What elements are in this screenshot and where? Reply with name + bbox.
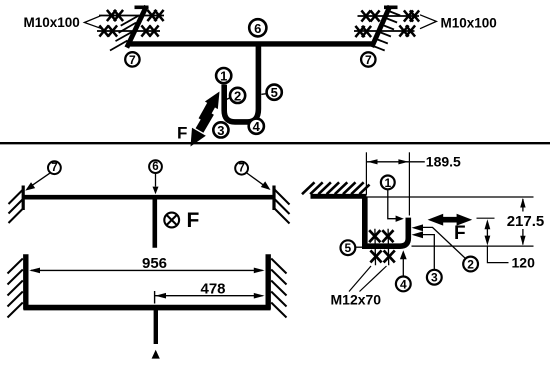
arrowhead up lower — [152, 350, 160, 359]
svg-text:120: 120 — [512, 254, 536, 270]
leader arrow BL-right — [246, 173, 270, 190]
circled 4 BR — [396, 277, 411, 292]
svg-text:478: 478 — [200, 281, 225, 298]
svg-text:3: 3 — [431, 271, 438, 285]
circled 4 top — [249, 119, 264, 135]
wall BL-right — [272, 186, 275, 211]
svg-text:M12x70: M12x70 — [331, 292, 382, 308]
circled 3 BR — [427, 270, 442, 285]
svg-text:M10x100: M10x100 — [24, 15, 80, 30]
hanger pipe U — [224, 46, 258, 122]
svg-text:1: 1 — [384, 176, 391, 190]
leader 3 — [412, 231, 435, 269]
svg-text:1: 1 — [220, 69, 227, 84]
svg-text:2: 2 — [467, 258, 474, 272]
circled 7 top-right — [361, 52, 375, 67]
leader 4 — [400, 250, 407, 275]
leader 2 — [412, 224, 466, 258]
circled 7 BL-left — [48, 161, 61, 174]
force arrow F up-right — [203, 92, 220, 121]
svg-text:4: 4 — [253, 119, 261, 134]
svg-text:6: 6 — [152, 161, 158, 173]
circled 1 BR — [381, 176, 395, 190]
separator line — [0, 142, 550, 144]
circled 5 BR — [341, 240, 363, 255]
center line lower — [154, 308, 158, 344]
ref line stub level — [477, 217, 495, 219]
bolts X left (M10) — [99, 10, 163, 37]
svg-text:6: 6 — [254, 21, 261, 36]
symbol F into page — [164, 213, 179, 228]
wall lower-left hatches — [8, 259, 23, 318]
svg-text:7: 7 — [51, 162, 57, 174]
force arrow F BR — [428, 214, 473, 226]
circled 2 BR — [463, 257, 478, 272]
circled 3 top — [213, 122, 228, 138]
svg-text:M10x100: M10x100 — [441, 15, 497, 30]
dim 478 — [155, 281, 265, 304]
ref line ceiling level — [367, 196, 534, 198]
bar BL — [24, 195, 275, 200]
svg-text:7: 7 — [365, 53, 372, 67]
circled 7 BL-right — [235, 162, 248, 175]
main bar — [127, 41, 375, 46]
wall BL-left hatches — [9, 190, 23, 223]
leader 1 — [388, 190, 404, 222]
svg-text:7: 7 — [129, 53, 136, 67]
dim 120 connector — [487, 245, 508, 262]
wall lower-right hatches — [271, 259, 286, 318]
tick to circled 5 — [261, 93, 265, 96]
right support diagonal — [372, 6, 398, 47]
leader arrow 6 BL — [153, 174, 159, 195]
circled 2 top — [230, 88, 245, 104]
dim 189.5 extension right — [408, 152, 410, 215]
dim 189.5 extension left — [365, 152, 367, 195]
left support diagonal — [127, 6, 149, 48]
svg-text:956: 956 — [142, 255, 167, 272]
J pipe — [365, 197, 409, 247]
wall lower-left — [23, 254, 28, 309]
circled 7 top-left — [125, 52, 139, 67]
wall BL-right hatches — [275, 190, 290, 224]
tick to circled 2 — [226, 98, 230, 100]
bolt centerlines (M12) — [375, 229, 389, 265]
right support hatching — [371, 10, 401, 51]
ceiling — [311, 194, 367, 199]
bolts X right (M10) — [355, 10, 419, 37]
hanger line BL — [153, 199, 158, 248]
ref line bar level — [412, 245, 534, 247]
leaders M12x70 — [349, 266, 387, 292]
bolts X (M12) — [369, 230, 395, 262]
circled 6 top — [249, 19, 266, 36]
dim 217.5 — [507, 198, 545, 246]
svg-text:5: 5 — [271, 85, 278, 100]
dim 120 arrows — [485, 219, 491, 245]
svg-text:F: F — [177, 124, 187, 143]
leader > right — [420, 15, 436, 29]
circled 5 top — [267, 85, 282, 101]
leader < left — [84, 15, 101, 28]
left bolt row lines — [97, 16, 164, 32]
svg-text:4: 4 — [400, 277, 407, 291]
wall BL-left — [22, 186, 25, 211]
dim 189.5 line — [366, 159, 424, 164]
dim 956 — [29, 255, 264, 273]
svg-text:189.5: 189.5 — [426, 154, 461, 170]
circled 6 BL — [149, 160, 162, 173]
right bolt row lines — [354, 16, 419, 31]
wall lower-right — [266, 254, 271, 309]
svg-text:F: F — [187, 209, 200, 232]
svg-text:2: 2 — [234, 88, 241, 103]
svg-text:5: 5 — [345, 241, 352, 255]
leader arrow BL-left — [25, 173, 50, 190]
svg-text:7: 7 — [238, 163, 244, 175]
svg-text:217.5: 217.5 — [507, 213, 545, 230]
bar lower — [24, 305, 271, 311]
force arrow F down-left — [191, 113, 211, 147]
left support hatching — [110, 15, 139, 50]
svg-text:F: F — [454, 223, 466, 244]
ceiling hatches — [302, 182, 370, 194]
svg-text:3: 3 — [217, 123, 224, 138]
circled 1 top — [216, 68, 231, 84]
